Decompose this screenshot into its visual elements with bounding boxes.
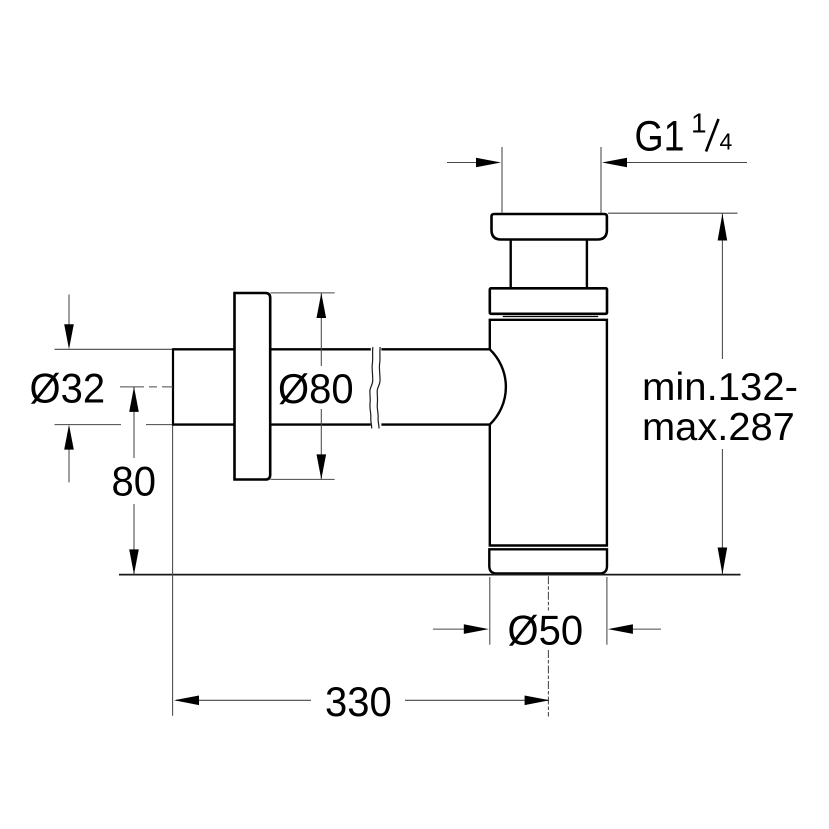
G1 extension line right	[600, 147, 602, 213]
G1 extension line left	[501, 147, 503, 213]
svg-text:G1: G1	[635, 113, 685, 161]
svg-text:1: 1	[691, 107, 707, 138]
min-max top extension line	[608, 212, 738, 214]
union nut	[490, 288, 607, 314]
330 dim line left	[176, 699, 311, 701]
trap body (cylinder)	[490, 320, 607, 546]
O32 extension line bottom (two segments)	[55, 424, 122, 426]
horizontal inlet pipe (right segment)	[381, 349, 489, 424]
O50 arrow right	[464, 624, 489, 634]
top flange	[492, 214, 607, 240]
80 arrow down	[129, 549, 139, 574]
330 arrow right	[525, 696, 550, 706]
O80 dim line upper	[320, 293, 322, 366]
pipe left end cap	[172, 348, 174, 426]
O80 arrow up	[317, 293, 327, 318]
body centerline dash-dot	[547, 576, 549, 610]
O32 arrow down	[64, 324, 74, 349]
seal washer edge	[503, 316, 598, 318]
O50 dim line left	[433, 628, 465, 630]
O32 extension line top	[55, 348, 173, 350]
O80 dim line lower	[320, 409, 322, 479]
O32 arrow up shaft	[68, 449, 70, 482]
svg-text:Ø32: Ø32	[30, 365, 106, 412]
min-max arrow down	[718, 548, 728, 575]
O32 arrow down shaft	[68, 295, 70, 331]
wall flange (vertical plate)	[235, 293, 271, 480]
O50 dim line right	[632, 628, 661, 630]
min-max arrow up	[718, 214, 728, 241]
G1 dimension line right part	[625, 162, 747, 164]
pipe centerline dash-dot	[120, 386, 173, 388]
svg-text:80: 80	[112, 458, 157, 505]
pipe break squiggle left	[370, 347, 373, 429]
O80 extension line bottom	[271, 478, 335, 480]
G1 dimension line left part	[447, 162, 478, 164]
G1 arrow pointing right	[476, 158, 501, 168]
G1 arrow pointing left	[602, 158, 627, 168]
330 dim line right	[405, 699, 548, 701]
svg-text:Ø80: Ø80	[278, 365, 354, 412]
svg-text:330: 330	[325, 678, 392, 725]
svg-text:min.132-: min.132-	[642, 366, 798, 409]
O50 arrow left	[608, 624, 633, 634]
body bottom cap	[489, 549, 607, 573]
svg-text:max.287: max.287	[642, 406, 795, 449]
connection neck	[511, 240, 587, 290]
80 arrow up	[129, 387, 139, 412]
O80 arrow down	[317, 454, 327, 479]
svg-text:Ø50: Ø50	[508, 607, 584, 654]
330 arrow left	[174, 696, 199, 706]
svg-text:4: 4	[720, 128, 733, 154]
O50 extension line left	[489, 577, 491, 645]
min-max dimension line lower	[721, 449, 723, 574]
min-max dimension line upper	[721, 213, 723, 359]
horizontal inlet pipe (left segment)	[173, 349, 371, 424]
O50 extension line right	[606, 577, 608, 645]
80 dim line lower	[133, 504, 135, 574]
O80 extension line top	[271, 292, 335, 294]
O32 arrow up	[64, 425, 74, 450]
330 extension line left (below pipe)	[172, 426, 174, 716]
pipe domed end inside body	[490, 349, 506, 424]
80 dim line upper	[133, 387, 135, 458]
pipe break squiggle right	[377, 347, 380, 429]
